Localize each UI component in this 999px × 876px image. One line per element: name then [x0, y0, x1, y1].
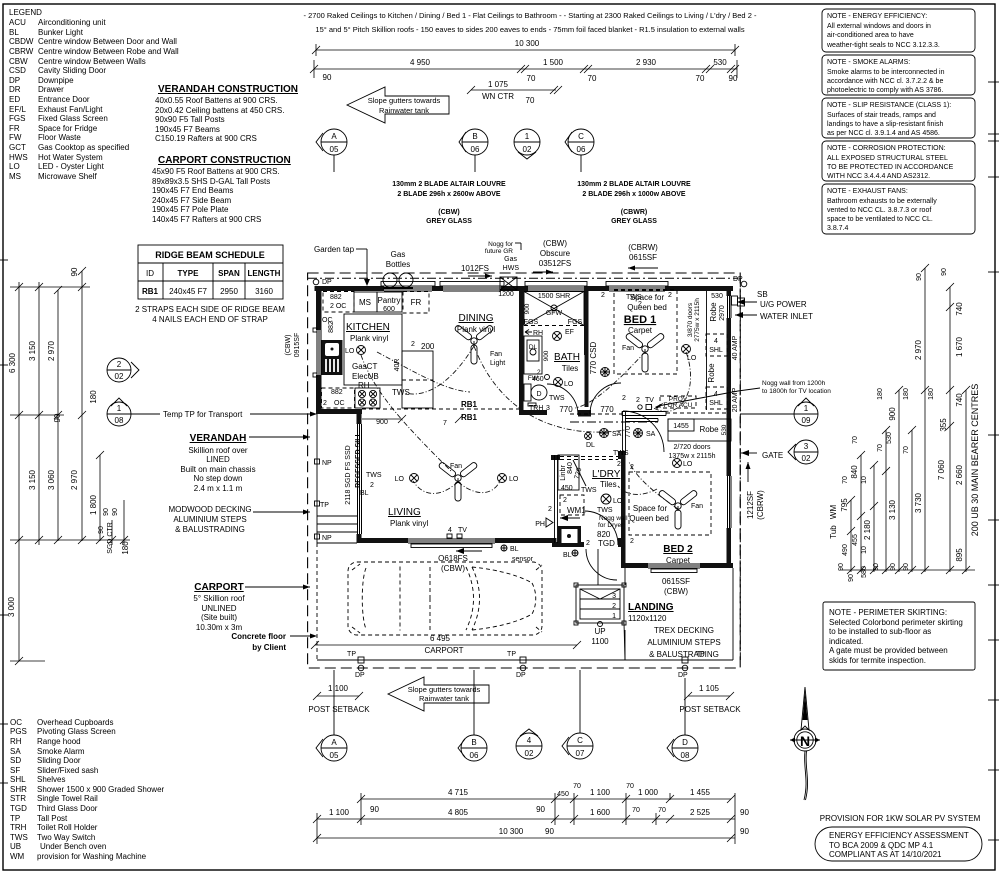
svg-text:- 2700 Raked Ceilings to Kitch: - 2700 Raked Ceilings to Kitchen / Dinin… [304, 11, 757, 20]
svg-text:TGD: TGD [598, 539, 615, 548]
svg-text:LO: LO [683, 461, 693, 468]
svg-text:Space for Fridge: Space for Fridge [38, 124, 98, 133]
svg-text:CARPORT: CARPORT [194, 582, 243, 593]
svg-text:LEGEND: LEGEND [9, 8, 42, 17]
window east wall robe [727, 296, 732, 318]
svg-text:450: 450 [561, 485, 573, 492]
svg-text:POST SETBACK: POST SETBACK [308, 705, 370, 714]
svg-text:& BALUSTRADING: & BALUSTRADING [649, 650, 719, 659]
svg-text:CARPORT CONSTRUCTION: CARPORT CONSTRUCTION [158, 155, 291, 166]
svg-text:Drawer: Drawer [38, 85, 64, 94]
svg-text:1 100: 1 100 [590, 788, 611, 797]
svg-text:Fan: Fan [450, 463, 462, 470]
recessed sill sliding door west living [345, 424, 362, 534]
svg-text:TWS: TWS [549, 395, 565, 402]
svg-text:90: 90 [545, 827, 554, 836]
svg-text:provision for Washing Machine: provision for Washing Machine [37, 852, 147, 861]
svg-text:Floor Waste: Floor Waste [38, 133, 81, 142]
svg-text:Cavity Sliding Door: Cavity Sliding Door [38, 66, 106, 75]
window east wall 1212SF [727, 476, 732, 528]
svg-text:TWS: TWS [366, 472, 382, 479]
svg-text:140x45 F7 Rafters at 900 CRS: 140x45 F7 Rafters at 900 CRS [152, 215, 261, 224]
svg-text:3 730: 3 730 [914, 492, 923, 513]
svg-text:Microwave Shelf: Microwave Shelf [38, 172, 97, 181]
svg-text:2/720 doors: 2/720 doors [674, 444, 711, 451]
svg-text:NP: NP [322, 535, 332, 542]
svg-text:SB: SB [757, 290, 768, 299]
svg-text:Space for: Space for [633, 504, 668, 513]
svg-text:08: 08 [115, 416, 124, 425]
svg-text:06: 06 [470, 751, 479, 760]
svg-text:WM: WM [829, 505, 838, 520]
svg-text:Tiles: Tiles [562, 364, 579, 373]
svg-text:NP: NP [322, 460, 332, 467]
svg-text:LO: LO [395, 476, 405, 483]
svg-text:LO: LO [509, 476, 519, 483]
svg-text:RH: RH [358, 381, 370, 390]
svg-text:70: 70 [527, 74, 536, 83]
svg-text:490: 490 [842, 544, 849, 556]
west rotated window label [285, 333, 301, 358]
svg-text:landings to have a slip-resist: landings to have a slip-resistant finish [827, 121, 943, 128]
verandah [315, 414, 358, 543]
svg-text:90: 90 [98, 526, 105, 534]
svg-text:RB1: RB1 [461, 413, 478, 422]
svg-text:KITCHEN: KITCHEN [346, 322, 390, 333]
svg-text:45x90 F5 Roof Battens at 900 C: 45x90 F5 Roof Battens at 900 CRS. [152, 167, 280, 176]
ridge beam schedule table [135, 245, 285, 324]
svg-text:90: 90 [103, 508, 110, 516]
svg-text:FGS: FGS [524, 319, 539, 326]
svg-text:90: 90 [53, 413, 62, 422]
svg-text:TRH: TRH [10, 823, 27, 832]
svg-text:05: 05 [330, 751, 339, 760]
right dimension chains [829, 264, 980, 582]
svg-text:882: 882 [330, 294, 342, 301]
svg-text:BATH: BATH [554, 352, 580, 363]
svg-text:WATER INLET: WATER INLET [760, 312, 813, 321]
post setback left [308, 684, 370, 714]
svg-text:1100: 1100 [591, 637, 609, 646]
svg-text:200 UB 30 MAIN BEARER CENTRES: 200 UB 30 MAIN BEARER CENTRES [970, 384, 980, 537]
svg-text:Selected Colorbond perimeter s: Selected Colorbond perimeter skirting [829, 618, 963, 627]
svg-text:WM: WM [10, 852, 25, 861]
svg-text:TO BE PROTECTED IN ACCORDANCE: TO BE PROTECTED IN ACCORDANCE [827, 164, 954, 171]
svg-text:Slope gutters towards: Slope gutters towards [408, 685, 481, 694]
svg-text:Bathroom exhausts to be extern: Bathroom exhausts to be externally [827, 198, 937, 205]
carport construction note [152, 155, 291, 224]
svg-text:0915SF: 0915SF [294, 333, 301, 358]
svg-text:02: 02 [802, 454, 811, 463]
note box slip resistance [822, 98, 975, 138]
svg-text:06: 06 [577, 145, 586, 154]
svg-text:90: 90 [873, 563, 880, 571]
hall [559, 395, 696, 468]
svg-text:3: 3 [546, 405, 550, 412]
svg-text:795: 795 [840, 498, 849, 512]
svg-text:TGD: TGD [10, 804, 27, 813]
svg-text:7: 7 [443, 420, 447, 427]
svg-text:GasCT: GasCT [352, 362, 377, 371]
wiring arcs [361, 346, 691, 509]
svg-text:Plank vinyl: Plank vinyl [350, 334, 388, 343]
svg-text:Skillion roof over: Skillion roof over [188, 446, 247, 455]
energy assessment oval [815, 827, 982, 861]
svg-text:vented to NCC CL. 3.8.7.3 or r: vented to NCC CL. 3.8.7.3 or roof [827, 207, 931, 214]
svg-text:70: 70 [877, 444, 884, 452]
svg-text:1 100: 1 100 [329, 808, 350, 817]
l'dry [535, 455, 634, 559]
svg-text:1375w x 2115h: 1375w x 2115h [669, 453, 716, 460]
svg-text:180: 180 [89, 390, 98, 404]
svg-text:2: 2 [668, 292, 672, 299]
svg-text:2: 2 [323, 400, 327, 407]
svg-text:PH: PH [535, 521, 545, 528]
svg-text:Queen bed: Queen bed [627, 303, 667, 312]
svg-text:4: 4 [448, 527, 452, 534]
svg-text:BED 2: BED 2 [663, 544, 693, 555]
svg-text:20x0.42 Ceiling battens at 450: 20x0.42 Ceiling battens at 450 CRS. [155, 106, 284, 115]
svg-text:VERANDAH CONSTRUCTION: VERANDAH CONSTRUCTION [158, 84, 298, 95]
svg-text:FGS: FGS [568, 319, 583, 326]
svg-text:Rainwater tank: Rainwater tank [379, 106, 429, 115]
svg-text:ALUMINIUM STEPS: ALUMINIUM STEPS [173, 515, 246, 524]
svg-text:Fan: Fan [622, 345, 634, 352]
svg-text:FW: FW [9, 133, 22, 142]
svg-text:Tub: Tub [829, 525, 838, 539]
svg-text:D: D [536, 391, 541, 398]
svg-text:CBRW: CBRW [9, 47, 34, 56]
svg-text:06: 06 [471, 145, 480, 154]
svg-text:ID: ID [146, 269, 154, 278]
svg-text:UP: UP [594, 627, 605, 636]
svg-text:4 950: 4 950 [410, 58, 431, 67]
house walls [315, 286, 734, 568]
svg-text:2.4 m x 1.1 m: 2.4 m x 1.1 m [194, 484, 243, 493]
svg-text:CBDW: CBDW [9, 37, 34, 46]
svg-text:70: 70 [526, 96, 535, 105]
svg-text:3 060: 3 060 [47, 469, 56, 490]
svg-text:photoelectric to comply with A: photoelectric to comply with AS 3786. [827, 87, 943, 94]
svg-text:DP: DP [355, 672, 365, 679]
svg-text:90: 90 [838, 563, 845, 571]
carport posts TP/DP [347, 651, 705, 679]
svg-text:2: 2 [411, 341, 415, 348]
svg-text:Fixed Glass Screen: Fixed Glass Screen [38, 114, 108, 123]
svg-text:TREX DECKING: TREX DECKING [654, 626, 714, 635]
svg-text:180: 180 [877, 388, 884, 400]
bed2 [629, 459, 711, 597]
svg-text:A: A [331, 738, 337, 747]
svg-text:LO: LO [564, 381, 574, 388]
grid bubble 1/02 top [514, 129, 540, 159]
svg-text:530: 530 [711, 293, 723, 300]
svg-text:Slider/Fixed sash: Slider/Fixed sash [37, 766, 98, 775]
svg-text:1: 1 [804, 404, 809, 413]
svg-text:RECESSED SILL: RECESSED SILL [355, 431, 362, 487]
svg-text:840: 840 [850, 465, 859, 479]
svg-text:DP: DP [9, 76, 20, 85]
svg-text:355: 355 [939, 418, 948, 432]
svg-text:MODWOOD DECKING: MODWOOD DECKING [168, 505, 251, 514]
svg-text:2 970: 2 970 [47, 340, 56, 361]
svg-text:90: 90 [536, 805, 545, 814]
svg-text:2: 2 [612, 603, 616, 610]
svg-text:CBW: CBW [9, 57, 28, 66]
svg-text:10.30m x 3m: 10.30m x 3m [196, 623, 243, 632]
svg-text:1 100: 1 100 [328, 684, 349, 693]
eaves outline dash-dot [308, 273, 741, 668]
svg-text:C: C [578, 132, 584, 141]
svg-text:770: 770 [559, 405, 573, 414]
svg-text:90: 90 [729, 74, 738, 83]
svg-text:1500 SHR: 1500 SHR [538, 293, 570, 300]
svg-text:O618FS: O618FS [438, 554, 468, 563]
svg-text:Sliding Door: Sliding Door [37, 756, 81, 765]
svg-text:DP: DP [516, 672, 526, 679]
svg-text:DL: DL [586, 442, 595, 449]
svg-text:Built on main chassis: Built on main chassis [180, 465, 255, 474]
svg-text:2 930: 2 930 [636, 58, 657, 67]
svg-text:Concrete floor: Concrete floor [231, 632, 286, 641]
top ceiling note [304, 11, 757, 34]
svg-text:08: 08 [681, 751, 690, 760]
svg-text:Gas: Gas [391, 250, 406, 259]
svg-text:2: 2 [636, 397, 640, 404]
svg-text:40x0.55 Roof Battens at 900 CR: 40x0.55 Roof Battens at 900 CRS. [155, 96, 278, 105]
svg-text:A: A [331, 132, 337, 141]
svg-text:Downpipe: Downpipe [38, 76, 74, 85]
svg-text:ENERGY EFFICIENCY ASSESSMENT: ENERGY EFFICIENCY ASSESSMENT [829, 831, 969, 840]
svg-text:Under Bench oven: Under Bench oven [40, 842, 106, 851]
svg-text:70: 70 [903, 446, 910, 454]
svg-text:90: 90 [848, 574, 855, 582]
kitchen cabinetry [322, 292, 435, 427]
svg-text:to 1800h for TV location: to 1800h for TV location [762, 388, 831, 395]
svg-text:2: 2 [563, 497, 567, 504]
svg-text:L'DRY: L'DRY [592, 469, 621, 480]
svg-text:1212SF: 1212SF [746, 491, 755, 519]
svg-text:skids for termite inspection.: skids for termite inspection. [829, 656, 926, 665]
svg-text:(Site built): (Site built) [201, 613, 237, 622]
svg-text:3/870 doors: 3/870 doors [687, 302, 694, 337]
svg-text:1 670: 1 670 [955, 336, 964, 357]
svg-text:EF/L: EF/L [9, 105, 26, 114]
svg-text:740: 740 [955, 393, 964, 407]
svg-text:GCT: GCT [9, 143, 26, 152]
svg-text:Rainwater tank: Rainwater tank [419, 694, 469, 703]
grid bubble B/06 top [459, 129, 488, 172]
svg-text:NOTE - ENERGY EFFICIENCY:: NOTE - ENERGY EFFICIENCY: [827, 13, 927, 20]
svg-text:No step down: No step down [194, 474, 243, 483]
svg-text:ALL EXPOSED STRUCTURAL STEEL: ALL EXPOSED STRUCTURAL STEEL [827, 155, 948, 162]
svg-text:Carpet: Carpet [666, 556, 691, 565]
svg-text:SA: SA [10, 747, 21, 756]
svg-text:GREY GLASS: GREY GLASS [426, 218, 472, 225]
svg-text:70: 70 [842, 476, 849, 484]
svg-text:LO: LO [687, 355, 697, 362]
svg-text:15° and 5° Pitch Skillion roof: 15° and 5° Pitch Skillion roofs - 150 ea… [315, 25, 744, 34]
svg-text:TP: TP [507, 651, 516, 658]
svg-text:580: 580 [861, 566, 868, 578]
svg-text:3: 3 [612, 593, 616, 600]
svg-text:air-conditioned area to have: air-conditioned area to have [827, 32, 914, 39]
svg-text:90: 90 [903, 563, 910, 571]
solar note [820, 814, 981, 823]
svg-text:3 150: 3 150 [28, 469, 37, 490]
svg-text:2: 2 [548, 506, 552, 513]
svg-text:2 660: 2 660 [955, 464, 964, 485]
svg-text:90x90 F5 Tall Posts: 90x90 F5 Tall Posts [155, 115, 225, 124]
svg-text:Entrance Door: Entrance Door [38, 95, 90, 104]
svg-text:RIDGE BEAM SCHEDULE: RIDGE BEAM SCHEDULE [155, 250, 265, 260]
svg-text:Robe: Robe [707, 363, 716, 383]
svg-text:190x45 F7 End Beams: 190x45 F7 End Beams [152, 186, 233, 195]
svg-text:Nogg wall from 1200h: Nogg wall from 1200h [762, 380, 826, 387]
svg-text:(CBW): (CBW) [543, 239, 567, 248]
svg-text:TO BCA 2009 & QDC MP 4.1: TO BCA 2009 & QDC MP 4.1 [829, 841, 934, 850]
svg-text:3: 3 [804, 442, 809, 451]
svg-text:Bunker Light: Bunker Light [38, 28, 84, 37]
right outside labels [655, 290, 831, 520]
svg-text:180: 180 [121, 541, 130, 555]
svg-text:U/G POWER: U/G POWER [760, 300, 807, 309]
svg-text:to be installed to sub-floor a: to be installed to sub-floor as [829, 627, 931, 636]
svg-text:02: 02 [523, 145, 532, 154]
living room [360, 461, 534, 563]
svg-text:90: 90 [323, 73, 332, 82]
svg-text:1 500: 1 500 [543, 58, 564, 67]
svg-text:DINING: DINING [459, 313, 494, 324]
svg-text:WN CTR: WN CTR [482, 92, 514, 101]
svg-text:(CBW): (CBW) [664, 587, 688, 596]
svg-text:TYPE: TYPE [178, 269, 200, 278]
svg-text:NOTE - SLIP RESISTANCE (CLASS: NOTE - SLIP RESISTANCE (CLASS 1): [827, 102, 951, 109]
svg-text:NOTE - EXHAUST FANS:: NOTE - EXHAUST FANS: [827, 188, 908, 195]
svg-text:& BALUSTRADING: & BALUSTRADING [175, 525, 245, 534]
top dimension 1075 WN CTR [467, 80, 562, 105]
svg-text:SHL: SHL [709, 400, 723, 407]
svg-text:BED 1: BED 1 [624, 314, 656, 326]
bath fixtures [524, 292, 598, 413]
svg-text:space to be ventilated to NCC: space to be ventilated to NCC CL. [827, 216, 933, 223]
svg-text:190x45 F7 Beams: 190x45 F7 Beams [155, 125, 220, 134]
svg-text:1012FS: 1012FS [461, 264, 489, 273]
svg-text:770: 770 [625, 426, 632, 438]
svg-text:FR: FR [9, 124, 20, 133]
svg-text:Pantry: Pantry [377, 296, 400, 305]
svg-text:2775w x 2115h: 2775w x 2115h [694, 298, 701, 342]
grid bubble C/06 top [565, 129, 594, 172]
svg-text:90: 90 [112, 508, 119, 516]
svg-text:740: 740 [955, 302, 964, 316]
svg-text:2: 2 [586, 540, 590, 547]
svg-text:2: 2 [638, 301, 642, 308]
svg-text:Nogg wall: Nogg wall [599, 515, 628, 522]
svg-text:130mm 2 BLADE ALTAIR LOUVRE: 130mm 2 BLADE ALTAIR LOUVRE [392, 181, 506, 188]
left grid bubble 1/08 [107, 398, 160, 426]
left grid bubble 2/02 [107, 358, 139, 382]
svg-text:2: 2 [617, 461, 621, 468]
svg-text:Range hood: Range hood [37, 737, 81, 746]
svg-text:03512FS: 03512FS [539, 259, 571, 268]
svg-text:530: 530 [886, 432, 893, 444]
svg-text:1 455: 1 455 [690, 788, 711, 797]
svg-text:Robe: Robe [699, 425, 719, 434]
svg-text:02: 02 [115, 372, 124, 381]
dining [454, 291, 514, 367]
svg-text:SHR: SHR [10, 785, 27, 794]
svg-text:2 BLADE 296h x 2600w ABOVE: 2 BLADE 296h x 2600w ABOVE [397, 191, 501, 198]
svg-text:Single Towel Rail: Single Towel Rail [37, 794, 98, 803]
svg-text:Fan: Fan [490, 351, 502, 358]
svg-text:Temp TP for Transport: Temp TP for Transport [163, 410, 243, 419]
note box smoke alarms [822, 55, 975, 95]
svg-text:Hot Water System: Hot Water System [38, 153, 103, 162]
right grid bubble 1/09 [740, 398, 818, 426]
svg-text:2950: 2950 [220, 287, 238, 296]
svg-text:190x45 F7 Pole Plate: 190x45 F7 Pole Plate [152, 205, 229, 214]
svg-text:accordance with NCC cl. 3.7.2.: accordance with NCC cl. 3.7.2.2 & be [827, 78, 943, 85]
svg-text:4 805: 4 805 [448, 808, 469, 817]
svg-text:BL: BL [563, 552, 572, 559]
bottom dimension rows [313, 783, 749, 844]
svg-text:240x45 F7 Side Beam: 240x45 F7 Side Beam [152, 196, 231, 205]
svg-text:TWS: TWS [10, 833, 28, 842]
svg-text:1200: 1200 [498, 291, 514, 298]
svg-text:Centre window Between Robe and: Centre window Between Robe and Wall [38, 47, 179, 56]
svg-text:882: 882 [328, 321, 335, 333]
svg-text:Tall Post: Tall Post [37, 814, 68, 823]
svg-text:HWS: HWS [503, 265, 520, 272]
svg-text:2: 2 [630, 538, 634, 545]
svg-text:4: 4 [714, 338, 718, 345]
svg-text:2 180: 2 180 [863, 519, 872, 540]
svg-text:70: 70 [573, 783, 581, 790]
svg-text:TWS: TWS [613, 450, 629, 457]
svg-text:(CBWR): (CBWR) [621, 209, 647, 216]
svg-text:3160: 3160 [255, 287, 273, 296]
bed1 [601, 290, 723, 377]
svg-text:3 130: 3 130 [888, 499, 897, 520]
window west wall 0915SF [313, 328, 322, 377]
svg-text:Plank vinyl: Plank vinyl [390, 519, 428, 528]
svg-text:TV: TV [458, 527, 467, 534]
svg-text:4 715: 4 715 [448, 788, 469, 797]
svg-text:882: 882 [331, 389, 343, 396]
svg-text:1: 1 [525, 132, 530, 141]
svg-text:6 300: 6 300 [8, 352, 17, 373]
svg-text:2 OC: 2 OC [330, 303, 346, 310]
svg-text:2: 2 [622, 395, 626, 402]
svg-text:450: 450 [557, 791, 569, 798]
svg-text:89x89x3.5 SHS D-GAL Tall Posts: 89x89x3.5 SHS D-GAL Tall Posts [152, 177, 270, 186]
svg-text:ED: ED [9, 95, 20, 104]
svg-text:TWS: TWS [581, 487, 597, 494]
svg-text:(CBRW): (CBRW) [756, 490, 765, 520]
svg-text:7 060: 7 060 [937, 459, 946, 480]
top dimension row 4950/1500/2930/530 [310, 58, 739, 83]
svg-text:02: 02 [525, 749, 534, 758]
note box perimeter skirting [823, 602, 975, 670]
svg-text:0615SF: 0615SF [629, 253, 657, 262]
svg-text:900: 900 [376, 419, 388, 426]
svg-text:530: 530 [713, 58, 727, 67]
svg-text:LENGTH: LENGTH [248, 269, 281, 278]
svg-text:ElecUB: ElecUB [352, 372, 379, 381]
svg-text:EF: EF [565, 329, 574, 336]
svg-text:1 075: 1 075 [488, 80, 509, 89]
